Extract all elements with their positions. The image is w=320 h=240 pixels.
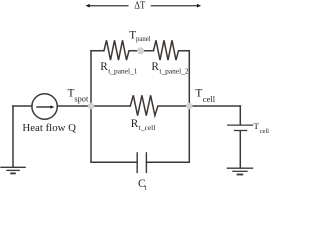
svg-text:R: R (100, 61, 108, 73)
svg-text:R: R (151, 61, 159, 73)
svg-text:panel: panel (136, 35, 151, 43)
svg-text:ΔT: ΔT (134, 1, 145, 12)
svg-text:R: R (131, 118, 139, 130)
svg-text:T: T (195, 88, 202, 100)
svg-text:t_panel_1: t_panel_1 (108, 66, 138, 75)
svg-text:T: T (254, 121, 260, 131)
svg-text:spot: spot (74, 95, 89, 104)
svg-text:t: t (145, 184, 147, 192)
svg-text:cell: cell (203, 95, 216, 104)
svg-text:cell: cell (260, 128, 270, 135)
svg-text:t_cell: t_cell (139, 123, 155, 132)
svg-text:t_panel_2: t_panel_2 (159, 66, 189, 75)
svg-text:Heat flow Q: Heat flow Q (22, 123, 76, 134)
